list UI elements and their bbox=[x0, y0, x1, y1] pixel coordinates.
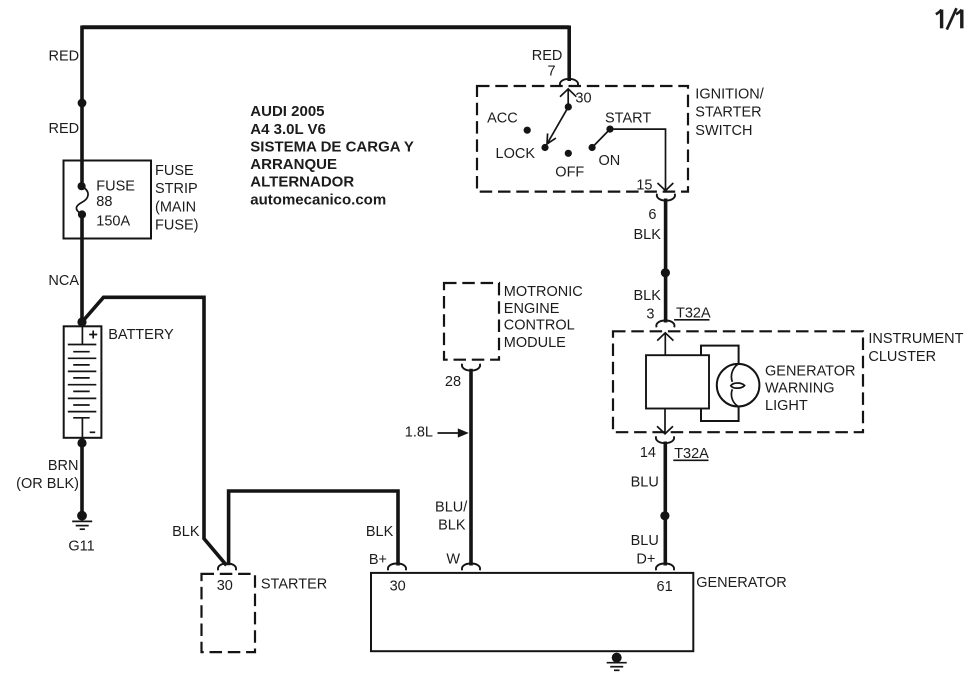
svg-text:CLUSTER: CLUSTER bbox=[868, 349, 936, 365]
switch lever from 30 pivot to LOCK with arrowhead bbox=[565, 103, 572, 110]
svg-text:RED: RED bbox=[532, 48, 563, 64]
svg-text:150A: 150A bbox=[96, 214, 130, 230]
connector at terminal 6 below switch bbox=[657, 194, 675, 201]
svg-text:6: 6 bbox=[648, 207, 656, 223]
svg-text:START: START bbox=[605, 111, 651, 127]
svg-text:MOTRONIC: MOTRONIC bbox=[504, 284, 583, 300]
switch contact line ON-START bbox=[592, 129, 610, 147]
starter box (dashed) bbox=[202, 574, 256, 652]
svg-text:ACC: ACC bbox=[487, 111, 518, 127]
svg-text:B+: B+ bbox=[369, 552, 387, 568]
generator case ground bbox=[612, 653, 622, 663]
svg-text:BLK: BLK bbox=[366, 524, 394, 540]
svg-text:GENERATOR: GENERATOR bbox=[696, 575, 787, 591]
svg-text:STARTER: STARTER bbox=[261, 577, 327, 593]
svg-text:W: W bbox=[446, 552, 460, 568]
svg-text:T32A: T32A bbox=[674, 446, 709, 462]
svg-text:BLK: BLK bbox=[172, 524, 200, 540]
connector at ignition terminal 7 bbox=[560, 79, 578, 86]
svg-text:FUSE: FUSE bbox=[96, 179, 135, 195]
connector at cluster terminal 14 bbox=[656, 436, 674, 443]
motronic engine control module box (dashed) bbox=[444, 283, 499, 360]
wire: battery positive diagonal to horizontal run to starter bbox=[82, 297, 227, 565]
connector at starter terminal 30 bbox=[218, 564, 236, 571]
svg-text:GENERATOR: GENERATOR bbox=[765, 364, 856, 380]
cluster input arrow (up) bbox=[664, 333, 666, 355]
switch output line START to terminal 15 arrow (down) bbox=[610, 129, 666, 190]
svg-text:ON: ON bbox=[599, 153, 621, 169]
svg-text:15: 15 bbox=[636, 178, 652, 194]
svg-text:FUSE): FUSE) bbox=[155, 218, 199, 234]
svg-text:MODULE: MODULE bbox=[504, 335, 566, 351]
svg-text:ARRANQUE: ARRANQUE bbox=[250, 156, 337, 173]
svg-text:BLU: BLU bbox=[631, 475, 659, 491]
svg-text:ALTERNADOR: ALTERNADOR bbox=[250, 174, 354, 191]
svg-text:CONTROL: CONTROL bbox=[504, 318, 575, 334]
connector at motronic terminal 28 bbox=[462, 364, 480, 371]
svg-text:RED: RED bbox=[49, 49, 80, 65]
svg-text:automecanico.com: automecanico.com bbox=[250, 191, 386, 208]
wire: starter 30 to generator B+ bbox=[229, 491, 398, 566]
svg-text:BLK: BLK bbox=[438, 517, 466, 533]
svg-text:30: 30 bbox=[575, 91, 591, 107]
svg-text:ENGINE: ENGINE bbox=[504, 301, 560, 317]
wire: BLK from switch to instrument cluster bbox=[664, 199, 668, 323]
battery - mark bbox=[90, 431, 96, 433]
wire: top horizontal RED from battery feed to ignition switch bbox=[82, 25, 569, 29]
svg-text:NCA: NCA bbox=[48, 273, 79, 289]
switch position dots bbox=[524, 127, 531, 134]
svg-text:28: 28 bbox=[445, 374, 461, 390]
node: junction on BLK wire bbox=[661, 268, 670, 277]
bulb lamp circle bbox=[717, 364, 760, 407]
svg-text:14: 14 bbox=[640, 445, 656, 461]
svg-text:A4 3.0L V6: A4 3.0L V6 bbox=[250, 121, 326, 138]
node: battery negative junction bbox=[77, 438, 86, 447]
wire: BLU/BLK from motronic to generator W bbox=[469, 369, 473, 566]
svg-text:D+: D+ bbox=[636, 552, 655, 568]
svg-text:SISTEMA DE CARGA Y: SISTEMA DE CARGA Y bbox=[250, 138, 414, 155]
fuse S88 element bbox=[76, 186, 88, 215]
wire: BLU from cluster to generator D+ bbox=[663, 442, 667, 566]
svg-text:BLK: BLK bbox=[633, 227, 661, 243]
svg-text:BLK: BLK bbox=[633, 288, 661, 304]
svg-text:STARTER: STARTER bbox=[695, 105, 761, 121]
svg-text:BRN: BRN bbox=[48, 458, 79, 474]
bulb holder rectangle bbox=[701, 346, 739, 421]
svg-text:30: 30 bbox=[217, 578, 233, 594]
page number 1/1 bbox=[936, 8, 962, 29]
svg-text:7: 7 bbox=[548, 64, 556, 80]
ground G11 bbox=[77, 511, 87, 521]
svg-text:3: 3 bbox=[646, 307, 654, 323]
warning light block bbox=[646, 355, 709, 408]
svg-text:30: 30 bbox=[390, 579, 406, 595]
battery internal plates bbox=[68, 326, 97, 438]
svg-text:WARNING: WARNING bbox=[765, 381, 835, 397]
switch terminal 30 arrow (up) bbox=[567, 89, 569, 107]
connector at generator terminal W bbox=[462, 564, 480, 571]
svg-text:STRIP: STRIP bbox=[155, 181, 198, 197]
svg-text:FUSE: FUSE bbox=[155, 163, 194, 179]
wire: left vertical RED down to fuse bbox=[80, 26, 84, 187]
connector at generator terminal B+ bbox=[388, 564, 406, 571]
svg-text:OFF: OFF bbox=[555, 165, 584, 181]
cluster output arrow (down) bbox=[664, 409, 666, 434]
svg-text:LOCK: LOCK bbox=[496, 146, 536, 162]
svg-text:LIGHT: LIGHT bbox=[765, 398, 808, 414]
svg-text:G11: G11 bbox=[68, 539, 94, 555]
instrument cluster box (dashed) bbox=[613, 331, 863, 432]
svg-text:SWITCH: SWITCH bbox=[695, 123, 752, 139]
svg-text:INSTRUMENT: INSTRUMENT bbox=[868, 331, 963, 347]
svg-text:AUDI 2005: AUDI 2005 bbox=[250, 103, 324, 120]
svg-text:BLU/: BLU/ bbox=[435, 500, 468, 516]
svg-text:1.8L: 1.8L bbox=[405, 425, 433, 441]
svg-text:(OR BLK): (OR BLK) bbox=[16, 476, 79, 492]
fuse strip box bbox=[64, 161, 152, 239]
svg-text:BLU: BLU bbox=[631, 533, 659, 549]
generator box bbox=[371, 573, 693, 651]
bulb filament bbox=[731, 364, 738, 382]
svg-text:BATTERY: BATTERY bbox=[108, 327, 174, 343]
wire: right vertical RED down to ignition terminal 7 bbox=[567, 26, 571, 82]
connector at cluster terminal 3 bbox=[656, 321, 674, 328]
battery + mark bbox=[89, 331, 97, 339]
connector at generator terminal D+ bbox=[656, 564, 674, 571]
ignition/starter switch box (dashed) bbox=[477, 86, 688, 192]
battery B bbox=[64, 326, 102, 438]
node: junction on BLU wire bbox=[660, 511, 669, 520]
svg-text:61: 61 bbox=[657, 579, 673, 595]
svg-text:IGNITION/: IGNITION/ bbox=[695, 86, 764, 102]
svg-text:88: 88 bbox=[96, 194, 112, 210]
node: junction on left RED wire bbox=[78, 99, 87, 108]
wire: battery negative to ground bbox=[80, 438, 84, 512]
node: battery positive junction bbox=[77, 317, 86, 326]
svg-text:(MAIN: (MAIN bbox=[155, 199, 196, 215]
wire: NCA from fuse to battery bbox=[80, 215, 84, 327]
svg-text:RED: RED bbox=[49, 121, 80, 137]
